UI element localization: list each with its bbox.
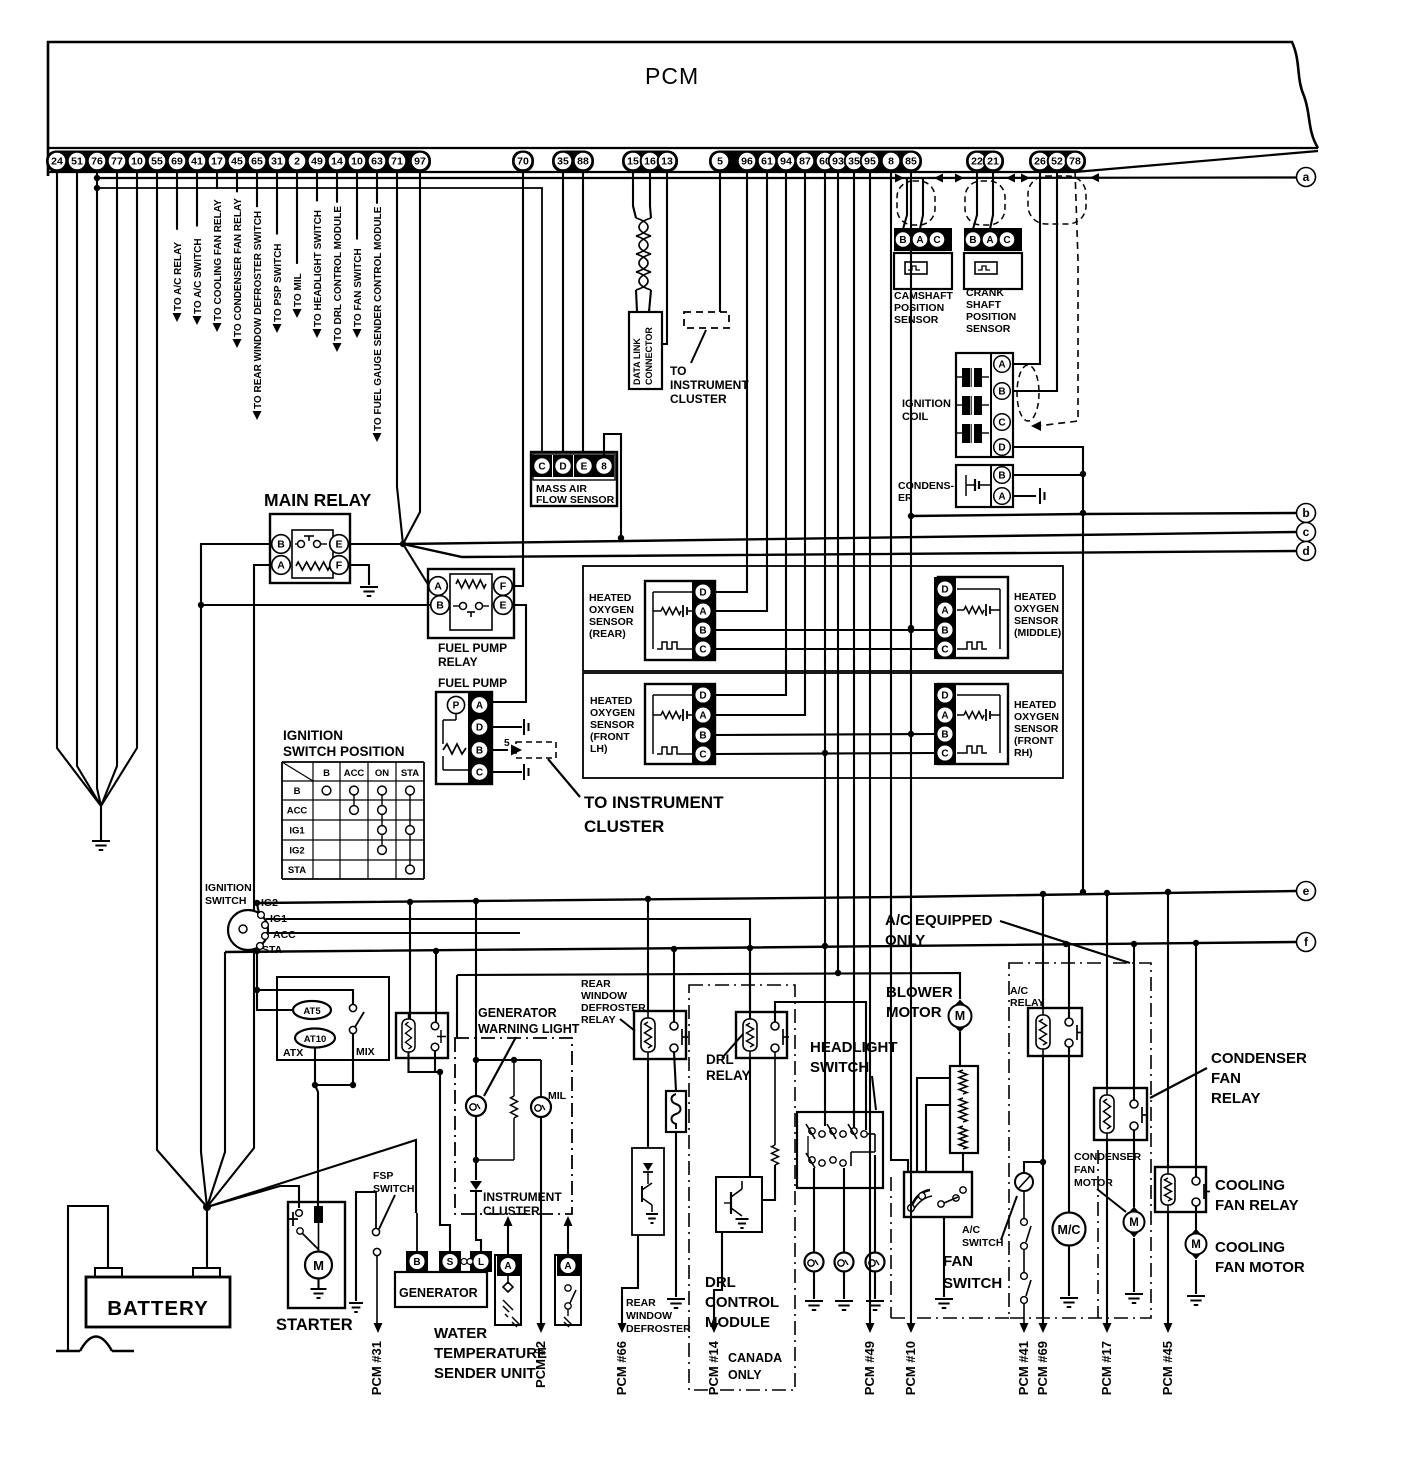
shielded wire pin 78 to ignition coil pin C (dashed)	[1038, 170, 1078, 426]
PCM pin 88	[574, 152, 593, 171]
wire pin stub 'TO COOLING FAN RELAY'	[216, 170, 218, 189]
shield drain arrows on bus a	[895, 174, 904, 183]
PCM pin 31	[268, 152, 287, 171]
node f bus terminal circle	[1297, 933, 1316, 952]
blower feed wire	[457, 973, 960, 999]
PCM pin 65	[248, 152, 267, 171]
PCM pin 71	[388, 152, 407, 171]
thermo switch chain under A/C switch	[1023, 1191, 1025, 1218]
pointer to A/C group box	[1000, 921, 1130, 963]
svg-text:DEFROSTER: DEFROSTER	[626, 1323, 691, 1335]
wire A/C switch chain to PCM #41	[1023, 1303, 1025, 1323]
wire to A/C switch	[1024, 1162, 1043, 1173]
svg-text:SENSOR: SENSOR	[590, 719, 635, 731]
wire junction to starter	[207, 1186, 299, 1208]
svg-text:PCM #45: PCM #45	[1160, 1341, 1175, 1395]
svg-text:B: B	[436, 600, 444, 612]
wire pin 15 to data link connector (twisted pair)	[633, 170, 636, 218]
PCM pin 13	[658, 152, 677, 171]
wire condenser fan motor to ground	[1133, 1238, 1135, 1292]
svg-text:GENERATOR: GENERATOR	[399, 1286, 478, 1300]
svg-text:A: A	[998, 492, 1005, 503]
PCM pin 63	[368, 152, 387, 171]
svg-text:TO INSTRUMENT: TO INSTRUMENT	[584, 793, 724, 812]
wire f-bus to relay K3 contact	[435, 951, 437, 1022]
fuel gauge sender connector	[557, 1255, 580, 1276]
svg-text:B: B	[941, 626, 948, 637]
svg-text:D: D	[699, 588, 706, 599]
svg-text:CONDENSER: CONDENSER	[1211, 1050, 1307, 1067]
wire f-bus to cooling fan relay contact	[1195, 942, 1197, 1177]
wire pin stub 'TO CONDENSER FAN RELAY'	[236, 170, 238, 192]
svg-text:OXYGEN: OXYGEN	[589, 604, 634, 616]
svg-text:C: C	[699, 645, 706, 656]
svg-text:TO MIL: TO MIL	[293, 273, 304, 307]
PCM pin 10	[348, 152, 367, 171]
svg-text:61: 61	[761, 156, 773, 168]
cluster resistor R1	[513, 1060, 515, 1096]
cooling fan motor M4	[1188, 1229, 1205, 1260]
ground at lamp L3	[805, 1301, 823, 1310]
PCM pin 5	[711, 152, 730, 171]
svg-text:78: 78	[1069, 156, 1081, 168]
battery ground terminal	[95, 1268, 122, 1277]
wire DRL coil to control module	[749, 1058, 751, 1177]
data link connector J1	[629, 312, 662, 389]
svg-text:WINDOW: WINDOW	[626, 1310, 672, 1322]
starter motor M5	[305, 1252, 332, 1279]
PCM pin 85	[902, 152, 921, 171]
PCM pin 93	[829, 152, 848, 171]
svg-text:24: 24	[51, 156, 63, 168]
wire pin 10 to common ground	[101, 170, 137, 806]
water temperature sender unit	[497, 1255, 520, 1276]
wire pin 94 to front-lh O2 sensor D	[715, 170, 786, 695]
svg-text:REAR: REAR	[581, 978, 611, 990]
wire O2 sensor B signal-ground link (front pair)	[715, 734, 934, 735]
svg-text:8: 8	[601, 462, 607, 473]
svg-text:93: 93	[832, 156, 844, 168]
svg-text:14: 14	[331, 156, 343, 168]
svg-text:RH): RH)	[1014, 747, 1033, 759]
wire fuel pump B to instrument cluster (splice)	[491, 749, 508, 751]
svg-text:b: b	[1302, 506, 1309, 520]
PCM pin 16	[641, 152, 660, 171]
PCM pin 41	[188, 152, 207, 171]
wire main relay A to battery junction	[207, 565, 272, 1207]
wire O2 sensor C heater-ground link (front pair)	[715, 753, 934, 754]
svg-text:MIX: MIX	[356, 1046, 375, 1058]
shield tube around camshaft sensor wires (dashed)	[897, 181, 935, 225]
svg-text:AT10: AT10	[304, 1034, 327, 1045]
PCM pin 70	[514, 152, 533, 171]
svg-text:B: B	[899, 235, 906, 246]
DRL relay K5	[736, 1012, 787, 1058]
wire condenser fan relay contact to motor	[1133, 1130, 1135, 1207]
table contact circles and links	[353, 791, 355, 811]
wire pin stub 'TO REAR WINDOW DEFROSTER SWITCH'	[256, 170, 258, 207]
wire blower motor to resistor	[959, 1032, 961, 1066]
DRL control module	[716, 1177, 762, 1232]
PCM pin 15	[624, 152, 643, 171]
svg-text:M: M	[1191, 1239, 1201, 1251]
heated oxygen sensor outer frame (front lh+front rh)	[583, 673, 1063, 778]
wire junction to generator B / FSP feed	[207, 1140, 416, 1213]
wire blower feed drop at cluster	[456, 975, 458, 1038]
svg-text:TEMPERATURE: TEMPERATURE	[434, 1345, 547, 1362]
svg-text:A: A	[699, 607, 706, 618]
wire pin stub 'TO HEADLIGHT SWITCH'	[316, 170, 318, 201]
wire MIL lamp to PCM #2	[540, 1117, 542, 1323]
wire pin 24 to common ground	[57, 170, 101, 806]
wire f-bus junction through DRL coil	[749, 948, 751, 1012]
svg-text:TO DRL CONTROL MODULE: TO DRL CONTROL MODULE	[333, 206, 344, 341]
shield ellipse near ignition coil (dashed)	[1017, 365, 1039, 421]
PCM pin 52	[1048, 152, 1067, 171]
svg-text:15: 15	[627, 156, 639, 168]
PCM pin 96	[738, 152, 757, 171]
svg-text:ONLY: ONLY	[728, 1368, 762, 1382]
wire e-bus to instrument cluster lamps	[475, 901, 477, 1096]
PCM pin 24	[48, 152, 67, 171]
svg-text:10: 10	[131, 156, 143, 168]
rear window defroster relay K4	[634, 1011, 686, 1059]
starter STR1	[288, 1202, 345, 1308]
svg-text:CAMSHAFT: CAMSHAFT	[894, 290, 953, 302]
svg-text:A: A	[986, 235, 993, 246]
svg-text:SWITCH POSITION: SWITCH POSITION	[283, 744, 405, 759]
svg-text:SENSOR: SENSOR	[1014, 615, 1059, 627]
svg-text:TO CONDENSER FAN RELAY: TO CONDENSER FAN RELAY	[233, 198, 244, 337]
blower motor M2	[951, 1000, 969, 1033]
svg-text:PCM #41: PCM #41	[1016, 1341, 1031, 1395]
wire main relay B to battery feed	[201, 544, 272, 1207]
wire headlight switch to head lamp	[843, 1168, 845, 1252]
PCM module U1 (powertrain control module)	[48, 42, 1318, 176]
wire cooling fan relay contact to motor	[1195, 1206, 1197, 1230]
PCM pin 17	[208, 152, 227, 171]
svg-text:FUEL PUMP: FUEL PUMP	[438, 641, 507, 655]
rear window defroster element R2	[666, 1091, 686, 1132]
svg-text:SWITCH: SWITCH	[205, 895, 246, 907]
wire defroster element to ground	[675, 1132, 677, 1297]
svg-text:95: 95	[864, 156, 876, 168]
svg-text:94: 94	[780, 156, 792, 168]
wire common ground drop	[100, 806, 102, 840]
PCM pin 45	[228, 152, 247, 171]
wire lamp top link	[476, 1059, 541, 1061]
PCM pin 14	[328, 152, 347, 171]
heated oxygen sensor outer frame (rear+middle)	[583, 566, 1063, 671]
PCM pin 51	[68, 152, 87, 171]
svg-text:POSITION: POSITION	[966, 311, 1016, 323]
svg-text:52: 52	[1051, 156, 1063, 168]
wire starter motor to ground	[317, 1278, 319, 1288]
heated oxygen sensor (rear)	[645, 581, 715, 660]
svg-text:IGNITION: IGNITION	[205, 882, 252, 894]
PCM pin 95	[861, 152, 880, 171]
svg-text:MOTOR: MOTOR	[1074, 1177, 1113, 1189]
instrument cluster box (dash-dot)	[455, 1038, 572, 1214]
diode D1 in cluster	[470, 1181, 482, 1190]
main relay K1	[270, 514, 350, 583]
svg-text:OXYGEN: OXYGEN	[1014, 603, 1059, 615]
wire bus f (STA feed)	[225, 942, 1296, 952]
wire IG1 line to DRL relay	[266, 919, 750, 1019]
pointer to generator warning light	[484, 1037, 516, 1096]
svg-text:C: C	[476, 768, 483, 779]
wire main relay E to junction node	[348, 543, 403, 545]
wire junction to fuel pump relay A	[403, 544, 429, 586]
svg-text:M: M	[955, 1009, 965, 1023]
svg-text:D: D	[941, 691, 948, 702]
svg-text:63: 63	[371, 156, 383, 168]
wire ACC line	[268, 932, 520, 934]
wire condenser B to shield junction	[1014, 474, 1083, 476]
svg-text:D: D	[941, 585, 948, 596]
svg-text:COOLING: COOLING	[1215, 1239, 1285, 1256]
crankshaft position sensor B3	[964, 228, 1022, 251]
PCM pin 26	[1031, 152, 1050, 171]
PCM pin 60	[816, 152, 835, 171]
svg-text:SHAFT: SHAFT	[966, 299, 1002, 311]
wire fuel pump D to ground	[491, 726, 522, 728]
svg-text:STA: STA	[288, 865, 306, 876]
svg-text:DRL: DRL	[705, 1274, 736, 1291]
wire pin 26 to ignition coil pin A	[1014, 170, 1040, 364]
PCM pin 94	[777, 152, 796, 171]
svg-text:SENSOR: SENSOR	[1014, 723, 1059, 735]
svg-text:ACC: ACC	[287, 806, 308, 817]
svg-text:41: 41	[191, 156, 203, 168]
svg-text:FSP: FSP	[373, 1170, 393, 1182]
svg-text:77: 77	[111, 156, 123, 168]
wire pin 70 to fuel pump relay pin F	[513, 170, 523, 586]
wire fuel pump relay E to fuel pump A	[492, 605, 526, 702]
wire pin 21 to crankshaft sensor pin A	[990, 170, 993, 229]
ground at fuel pump D	[524, 719, 529, 735]
svg-text:13: 13	[661, 156, 673, 168]
svg-text:FLOW SENSOR: FLOW SENSOR	[536, 494, 615, 506]
wire lamp L5 to ground	[874, 1271, 876, 1299]
svg-text:B: B	[476, 746, 483, 757]
wire twisted pair into data link connector	[636, 290, 637, 312]
svg-text:C: C	[941, 749, 948, 760]
wire A/C relay contact to magnetic clutch	[1068, 1047, 1070, 1212]
svg-text:MAIN RELAY: MAIN RELAY	[264, 490, 372, 510]
svg-text:E: E	[581, 462, 588, 473]
wire magnetic clutch to ground	[1068, 1246, 1070, 1296]
wire pin 51 to common ground	[77, 170, 101, 806]
heated oxygen sensor (front lh)	[645, 684, 715, 764]
svg-text:A/C EQUIPPED: A/C EQUIPPED	[885, 912, 993, 929]
svg-text:WINDOW: WINDOW	[581, 990, 627, 1002]
wire pin 87 to front-lh O2 sensor A	[715, 170, 805, 715]
fuel pump relay K2	[428, 569, 514, 638]
fuel pump M1	[436, 692, 492, 784]
head lamp L5	[866, 1253, 885, 1272]
svg-text:A: A	[941, 606, 948, 617]
svg-text:B: B	[323, 768, 330, 779]
wire pin stub 'TO PSP SWITCH'	[276, 170, 278, 234]
svg-text:TO HEADLIGHT SWITCH: TO HEADLIGHT SWITCH	[313, 210, 324, 327]
splice stub to instrument cluster (dashed)	[516, 742, 556, 758]
ground at lamp L5	[866, 1301, 884, 1310]
svg-text:D: D	[559, 462, 566, 473]
pointer to DRL relay coil	[722, 1034, 743, 1058]
svg-text:16: 16	[644, 156, 656, 168]
svg-text:A: A	[941, 711, 948, 722]
svg-text:51: 51	[71, 156, 83, 168]
svg-text:B: B	[969, 235, 976, 246]
shield tube around ignition coil wires (dashed)	[1028, 176, 1086, 224]
svg-text:M: M	[1129, 1217, 1139, 1229]
to-instrument-cluster stub connector (dashed)	[684, 312, 729, 328]
svg-text:CLUSTER: CLUSTER	[670, 392, 727, 406]
svg-text:A: A	[476, 701, 483, 712]
wire e-bus to relay K3 coil	[409, 902, 411, 1019]
heated oxygen sensor (front rh)	[938, 684, 1008, 764]
svg-text:SWITCH: SWITCH	[810, 1059, 869, 1076]
wire ground bus line a from pin 76 to node a	[97, 176, 1296, 179]
wire bus b	[911, 513, 1296, 516]
wire condenser fan relay coil to PCM #17	[1106, 1140, 1108, 1323]
svg-text:INSTRUMENT: INSTRUMENT	[670, 378, 749, 392]
ground at fan switch	[935, 1299, 953, 1308]
wire pin 35b to headlight switch	[853, 170, 855, 1128]
svg-text:c: c	[1303, 525, 1310, 539]
rear window defroster control module	[632, 1148, 664, 1235]
svg-text:35: 35	[557, 156, 569, 168]
wire pin 8 to fan switch	[891, 170, 908, 1172]
svg-text:ACC: ACC	[344, 768, 365, 779]
headlight switch S2	[797, 1112, 883, 1188]
svg-text:A: A	[277, 560, 285, 572]
svg-text:F: F	[500, 581, 507, 593]
svg-text:TO A/C SWITCH: TO A/C SWITCH	[193, 238, 204, 314]
wire pin stub 'TO A/C SWITCH'	[196, 170, 198, 226]
svg-text:CANADA: CANADA	[728, 1351, 782, 1365]
node a bus terminal circle	[1297, 168, 1316, 187]
head lamp L4	[835, 1253, 854, 1272]
PCM pin 87	[796, 152, 815, 171]
svg-text:FAN: FAN	[943, 1253, 973, 1270]
pointer to instrument cluster label	[548, 759, 580, 797]
wire to camshaft sensor pin A	[920, 178, 923, 229]
wire pin 88 to mass air flow sensor pin E	[582, 170, 584, 452]
PCM pin 8	[882, 152, 901, 171]
svg-text:HEATED: HEATED	[590, 695, 633, 707]
svg-text:TO FUEL GAUGE SENDER CONTROL M: TO FUEL GAUGE SENDER CONTROL MODULE	[373, 206, 384, 431]
svg-text:PCM #31: PCM #31	[369, 1341, 384, 1395]
svg-text:D: D	[998, 443, 1005, 454]
PCM connector band top edge	[48, 147, 1318, 149]
wire lamp L4 to ground	[843, 1271, 845, 1299]
wire pin 5 to instrument cluster connector	[719, 170, 721, 312]
svg-text:B: B	[699, 731, 706, 742]
ground at magnetic clutch	[1060, 1298, 1078, 1307]
wire pin 60 to headlight switch	[824, 170, 826, 1126]
wire fuel sender to cluster gauge	[567, 1222, 569, 1255]
svg-text:B: B	[699, 626, 706, 637]
ground at defroster element	[667, 1299, 685, 1308]
svg-text:REAR: REAR	[626, 1297, 656, 1309]
wire to camshaft sensor pin B	[903, 178, 907, 229]
svg-text:DATA LINK: DATA LINK	[632, 338, 642, 385]
wire headlight switch to head lamp 2	[874, 1155, 876, 1252]
wire lamp L3 to ground	[813, 1271, 815, 1299]
wire pin stub 'TO FUEL GAUGE SENDER CONTROL MODULE'	[376, 170, 378, 204]
svg-text:96: 96	[741, 156, 753, 168]
svg-text:DRL: DRL	[706, 1052, 734, 1067]
wire fan switch to ground	[943, 1217, 945, 1297]
wire pin 95 to PCM #49	[869, 170, 871, 1323]
svg-text:COOLING: COOLING	[1215, 1177, 1285, 1194]
svg-text:31: 31	[271, 156, 283, 168]
PCM connector black band segments	[46, 151, 431, 173]
svg-text:21: 21	[987, 156, 999, 168]
pointer to A/C switch	[1001, 1196, 1017, 1240]
wire f-bus to A/C relay contact	[1068, 944, 1070, 1018]
svg-text:RELAY: RELAY	[438, 655, 478, 669]
svg-text:A: A	[504, 1261, 511, 1272]
PCM pin 35	[845, 152, 864, 171]
wire bus f left end to battery junction	[207, 952, 225, 1207]
svg-text:TO A/C RELAY: TO A/C RELAY	[173, 242, 184, 311]
svg-text:M/C: M/C	[1058, 1223, 1081, 1237]
wire warning lamp to diode	[475, 1116, 477, 1180]
ignition coil T1	[956, 353, 1013, 457]
ground at cooling fan motor	[1187, 1296, 1205, 1305]
A/C equipped group box (dash-dot)	[1009, 963, 1151, 1318]
svg-text:45: 45	[231, 156, 243, 168]
wire AT10 / MIX down to starter solenoid	[314, 1047, 316, 1085]
node e bus terminal circle	[1297, 882, 1316, 901]
svg-text:2: 2	[294, 156, 300, 168]
ground at lamp L4	[835, 1301, 853, 1310]
wire O2 sensor B signal-ground link (rear-middle)	[715, 629, 934, 631]
svg-text:POSITION: POSITION	[894, 302, 944, 314]
ground at fuel pump C	[524, 764, 529, 780]
ground at condenser fan motor	[1125, 1294, 1143, 1303]
svg-text:5: 5	[504, 738, 510, 749]
wire pin 85 to PCM #10	[910, 170, 912, 1323]
svg-text:PCM: PCM	[645, 63, 699, 89]
node d bus terminal circle	[1297, 542, 1316, 561]
condenser fan relay K7	[1094, 1088, 1147, 1140]
svg-text:SENSOR: SENSOR	[589, 616, 634, 628]
svg-text:CONDENS-: CONDENS-	[898, 480, 955, 492]
svg-text:B: B	[277, 539, 285, 551]
A/C equipped group box inner boundary (dash-dot)	[1097, 1150, 1099, 1318]
svg-text:PCM #17: PCM #17	[1099, 1341, 1114, 1395]
wire FSP switch to PCM #31	[376, 1256, 378, 1323]
PCM pin 55	[148, 152, 167, 171]
wire cooling fan relay coil to PCM #45	[1167, 1212, 1169, 1323]
svg-text:FAN: FAN	[1211, 1070, 1241, 1087]
wire pin 55 to battery junction	[157, 170, 207, 1207]
svg-text:TO PSP SWITCH: TO PSP SWITCH	[273, 243, 284, 322]
svg-text:SENSOR: SENSOR	[966, 323, 1011, 335]
wire battery negative to body ground	[68, 1206, 108, 1350]
svg-text:PCM #10: PCM #10	[903, 1341, 918, 1395]
ground G1 (PCM grounds)	[92, 841, 110, 850]
generator GEN1	[406, 1251, 428, 1272]
svg-text:ACC: ACC	[273, 929, 296, 941]
svg-text:FAN MOTOR: FAN MOTOR	[1215, 1259, 1305, 1276]
twisted pair symbol	[636, 218, 651, 236]
svg-text:B: B	[413, 1257, 420, 1268]
